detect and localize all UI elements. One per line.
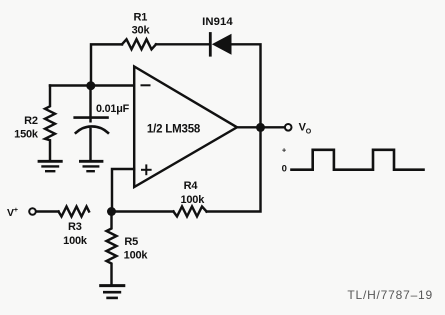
svg-text:IN914: IN914 [202,16,233,28]
svg-text:R3: R3 [68,221,82,233]
op-amp U1 plus sign [142,165,151,174]
svg-text:R1: R1 [133,12,147,24]
node C junction plus input [107,207,116,216]
resistor R5 [107,212,117,286]
resistor R4 [173,207,206,217]
capacitor C1 top plate [75,116,108,119]
capacitor C1 bottom curved plate [76,126,108,132]
wire top feedback left segment [91,44,122,85]
svg-text:R5: R5 [124,236,138,248]
wire feedback vertical to R4 [207,127,261,211]
diode D1 1N914 cathode bar [209,34,212,56]
svg-text:1/2 LM358: 1/2 LM358 [147,123,201,135]
resistor R2 [45,86,55,162]
svg-text:0: 0 [282,164,287,175]
wire op-amp output [237,126,285,128]
wire minus input [50,84,134,86]
ground for R5 [101,286,124,298]
diode D1 1N914 arrow [212,34,232,55]
wire R4 to node [112,210,174,212]
svg-text:R2: R2 [24,115,38,127]
ground for R2 [39,161,61,171]
op-amp U1 minus sign [142,84,150,86]
svg-text:100k: 100k [63,235,88,247]
node A junction minus input [86,81,95,90]
svg-text:0.01μF: 0.01μF [96,103,130,115]
svg-text:TL/H/7787–19: TL/H/7787–19 [347,288,433,302]
svg-text:150k: 150k [14,129,39,141]
ground for C1 [80,161,102,171]
terminal Vo [285,124,292,131]
wire V+ to R3 [36,210,58,212]
svg-text:100k: 100k [124,249,149,261]
terminal V+ [29,208,36,215]
resistor R3 [59,207,90,217]
wire R1 to diode [156,43,209,45]
svg-text:100k: 100k [180,194,205,206]
output square waveform [292,150,424,170]
resistor R1 [122,39,156,49]
svg-text:30k: 30k [132,24,151,36]
svg-text:R4: R4 [184,180,199,192]
wire diode to feedback corner [232,44,261,126]
wire plus input [112,169,134,212]
op-amp U1 triangle [134,67,237,188]
capacitor C1 bottom lead [89,129,91,161]
capacitor C1 top lead [89,86,91,122]
node B junction output [256,123,265,132]
